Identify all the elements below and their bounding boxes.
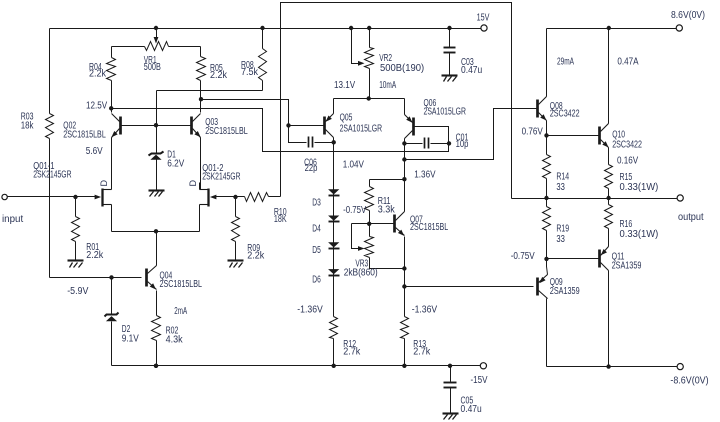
svg-text:D5: D5 — [312, 245, 321, 256]
svg-text:4.3k: 4.3k — [166, 335, 184, 346]
svg-text:D: D — [99, 180, 109, 187]
svg-text:0.47u: 0.47u — [461, 65, 482, 76]
svg-text:2.2k: 2.2k — [247, 251, 265, 262]
svg-text:12.5V: 12.5V — [86, 101, 107, 112]
svg-text:2SC1815LBL: 2SC1815LBL — [205, 126, 248, 137]
svg-text:-8.6V(0V): -8.6V(0V) — [670, 375, 708, 386]
svg-text:15V: 15V — [477, 13, 490, 24]
svg-text:2SA1359: 2SA1359 — [612, 261, 642, 272]
svg-text:10mA: 10mA — [379, 80, 396, 91]
svg-text:2.7k: 2.7k — [413, 347, 431, 358]
svg-text:13.1V: 13.1V — [334, 80, 355, 91]
svg-text:3.3k: 3.3k — [378, 205, 396, 216]
svg-text:2SC1815LBL: 2SC1815LBL — [160, 279, 203, 290]
svg-text:33: 33 — [556, 182, 565, 193]
svg-text:-0.75V: -0.75V — [511, 251, 535, 262]
svg-text:2SA1359: 2SA1359 — [550, 286, 580, 297]
svg-text:D3: D3 — [312, 198, 321, 209]
svg-text:2SC1815LBL: 2SC1815LBL — [63, 129, 106, 140]
svg-text:-1.36V: -1.36V — [297, 304, 323, 315]
svg-text:D: D — [188, 180, 198, 187]
svg-text:-5.9V: -5.9V — [67, 286, 88, 297]
svg-text:2.2k: 2.2k — [86, 250, 104, 261]
svg-text:1.04V: 1.04V — [343, 160, 364, 171]
svg-text:8.6V(0V): 8.6V(0V) — [671, 10, 705, 21]
svg-text:22p: 22p — [305, 163, 318, 174]
svg-text:10p: 10p — [456, 139, 469, 150]
svg-text:29mA: 29mA — [557, 57, 574, 68]
svg-text:D6: D6 — [312, 275, 321, 286]
svg-text:0.47A: 0.47A — [617, 57, 638, 68]
svg-text:500B(190): 500B(190) — [380, 63, 424, 74]
svg-text:2.2k: 2.2k — [210, 70, 228, 81]
svg-text:18k: 18k — [21, 121, 35, 132]
svg-text:Q05: Q05 — [340, 113, 353, 124]
svg-text:-1.36V: -1.36V — [412, 304, 438, 315]
svg-text:2SA1015LGR: 2SA1015LGR — [424, 107, 467, 118]
svg-text:2.2k: 2.2k — [89, 69, 107, 80]
svg-text:2SC3422: 2SC3422 — [612, 140, 642, 151]
svg-text:7.5k: 7.5k — [241, 67, 259, 78]
svg-text:6.2V: 6.2V — [167, 159, 184, 170]
svg-text:input: input — [2, 214, 23, 225]
svg-text:0.47u: 0.47u — [461, 404, 482, 415]
svg-text:D4: D4 — [312, 224, 321, 235]
svg-text:-15V: -15V — [471, 375, 488, 386]
svg-text:0.33(1W): 0.33(1W) — [620, 229, 659, 240]
svg-text:2SK2145GR: 2SK2145GR — [33, 169, 71, 180]
svg-text:2SA1015LGR: 2SA1015LGR — [340, 123, 383, 134]
svg-text:500B: 500B — [144, 62, 161, 73]
svg-text:1.36V: 1.36V — [414, 169, 435, 180]
svg-text:output: output — [678, 212, 704, 223]
svg-text:2SC1815BL: 2SC1815BL — [410, 222, 449, 233]
svg-text:2mA: 2mA — [174, 306, 187, 317]
svg-text:2SK2145GR: 2SK2145GR — [202, 172, 240, 183]
svg-text:0.33(1W): 0.33(1W) — [620, 182, 659, 193]
svg-text:0.76V: 0.76V — [522, 127, 543, 138]
svg-text:5.6V: 5.6V — [86, 146, 103, 157]
svg-text:9.1V: 9.1V — [122, 334, 139, 345]
svg-text:2.7k: 2.7k — [343, 347, 361, 358]
svg-text:2kB(860): 2kB(860) — [344, 268, 378, 279]
svg-text:0.16V: 0.16V — [617, 155, 638, 166]
svg-text:18K: 18K — [274, 214, 287, 225]
svg-text:-0.75V: -0.75V — [343, 205, 366, 216]
svg-text:2SC3422: 2SC3422 — [550, 109, 580, 120]
svg-text:33: 33 — [556, 234, 565, 245]
